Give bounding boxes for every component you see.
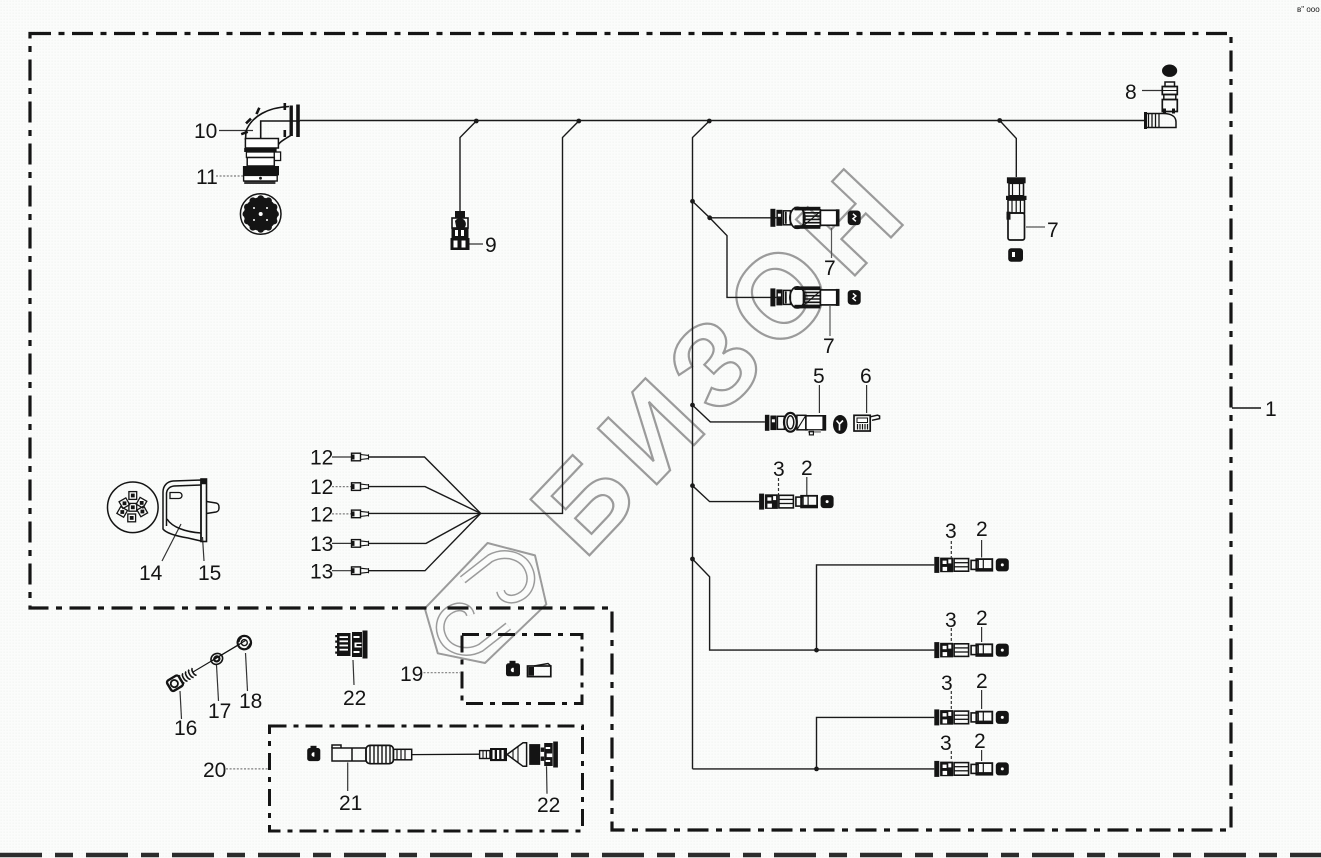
svg-text:8: 8 [1125,81,1137,104]
svg-text:2: 2 [976,607,988,630]
svg-text:13: 13 [310,561,333,584]
svg-text:22: 22 [343,687,366,710]
svg-text:в" ооо: в" ооо [1297,5,1320,14]
svg-text:3: 3 [940,732,952,755]
svg-text:9: 9 [485,234,497,257]
svg-text:10: 10 [194,120,217,143]
svg-text:12: 12 [310,447,333,470]
svg-text:3: 3 [945,520,957,543]
svg-text:12: 12 [310,476,333,499]
svg-text:6: 6 [860,365,872,388]
svg-text:19: 19 [400,663,423,686]
svg-text:17: 17 [208,700,231,723]
svg-text:22: 22 [537,794,560,817]
svg-text:2: 2 [976,670,988,693]
svg-text:7: 7 [1047,219,1059,242]
svg-text:7: 7 [824,257,836,280]
svg-text:15: 15 [198,562,221,585]
svg-text:12: 12 [310,504,333,527]
svg-text:11: 11 [196,166,218,189]
svg-text:3: 3 [941,672,953,695]
svg-text:14: 14 [139,562,163,585]
svg-text:3: 3 [945,609,957,632]
svg-text:18: 18 [239,690,262,713]
svg-text:5: 5 [813,365,825,388]
svg-text:2: 2 [976,518,988,541]
svg-text:21: 21 [339,792,362,815]
svg-text:16: 16 [174,717,197,740]
svg-text:2: 2 [974,730,986,753]
svg-text:20: 20 [203,759,226,782]
svg-text:2: 2 [801,457,813,480]
svg-text:7: 7 [823,335,835,358]
svg-text:13: 13 [310,533,333,556]
svg-text:3: 3 [773,458,785,481]
svg-text:1: 1 [1265,398,1277,421]
